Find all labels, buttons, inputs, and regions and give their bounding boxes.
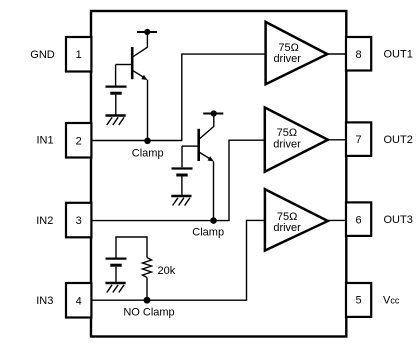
wire Q2 collector [200, 114, 214, 139]
pin 3 box [66, 203, 91, 238]
svg-text:OUT3: OUT3 [384, 214, 413, 226]
pin 5 box [346, 283, 371, 317]
capacitor C2 [172, 169, 193, 176]
pin 6 box [346, 202, 371, 236]
transistor Q1 [132, 47, 147, 80]
svg-text:Clamp: Clamp [192, 226, 224, 238]
wire C3 to ground [115, 267, 117, 282]
svg-text:4: 4 [76, 296, 82, 308]
pin 1 box [66, 37, 91, 72]
svg-text:3: 3 [76, 215, 82, 227]
ground GND3 [106, 283, 126, 293]
wire R1 to IN3 [146, 278, 148, 301]
wire IN3 (pin4 to corner) [91, 299, 247, 301]
pin 2 box [66, 123, 91, 158]
svg-text:6: 6 [356, 214, 362, 226]
node no-clamp junction [144, 297, 151, 304]
ground GND1 [106, 116, 126, 126]
svg-text:Clamp: Clamp [132, 147, 164, 159]
wire C3 R1 top link [116, 237, 147, 258]
node clamp 1 junction [144, 138, 151, 145]
IC body U1 [91, 11, 346, 337]
driver U2 (75 ohm driver 1) [266, 22, 328, 84]
wire IN2 (pin3 to corner) [91, 220, 230, 222]
svg-text:driver: driver [273, 138, 301, 150]
wire Q2 base [182, 145, 198, 147]
wire IN1 (pin2 to corner) [91, 140, 182, 142]
svg-text:IN1: IN1 [36, 135, 53, 147]
transistor Q2 collector rail [203, 113, 223, 115]
wire U2 output to pin 8 [327, 53, 346, 55]
svg-text:NO Clamp: NO Clamp [123, 306, 174, 318]
pin 8 box [346, 37, 371, 71]
svg-text:IN3: IN3 [36, 295, 53, 307]
node Q1 collector dot [144, 29, 150, 35]
wire Q2 emitter to IN2 [213, 162, 215, 221]
wire IN1 riser to driver U2 [182, 54, 266, 140]
wire Q1 collector [133, 32, 147, 57]
wire IN3 riser to driver U4 [247, 220, 267, 300]
capacitor C1 [106, 87, 127, 94]
svg-text:8: 8 [356, 49, 362, 61]
svg-text:Vcc: Vcc [383, 294, 400, 306]
svg-text:75Ω: 75Ω [277, 127, 297, 139]
pin 4 box [66, 283, 91, 318]
wire Q1 emitter to IN1 [147, 80, 149, 141]
capacitor C3 [106, 259, 127, 266]
wire Q2 base to capacitor C2 [181, 146, 183, 167]
wire U4 output to pin 6 [328, 219, 346, 221]
svg-text:20k: 20k [158, 265, 176, 277]
svg-text:OUT1: OUT1 [384, 49, 413, 61]
pin 7 box [346, 122, 371, 155]
wire IN2 riser to driver U3 [229, 140, 266, 220]
node Q2 collector dot [211, 110, 217, 116]
wire Q1 base [116, 64, 131, 66]
transistor Q2 [199, 129, 214, 162]
node clamp 2 junction [210, 217, 217, 224]
svg-text:OUT2: OUT2 [384, 134, 413, 146]
svg-text:5: 5 [356, 295, 362, 307]
svg-text:7: 7 [356, 134, 362, 146]
svg-text:driver: driver [273, 222, 301, 234]
driver U4 (75 ohm driver 3) [265, 189, 328, 250]
ground GND2 [171, 196, 191, 206]
driver U3 (75 ohm driver 2) [265, 108, 328, 172]
wire C1 to ground [115, 95, 117, 115]
svg-text:GND: GND [30, 49, 55, 61]
wire U3 output to pin 7 [328, 139, 346, 141]
transistor Q1 collector rail [137, 31, 157, 33]
wire Q1 base to capacitor C1 [115, 65, 117, 86]
svg-text:IN2: IN2 [36, 215, 53, 227]
svg-text:driver: driver [273, 53, 301, 65]
svg-text:1: 1 [76, 49, 82, 61]
resistor R1 20k [143, 258, 152, 278]
wire C2 to ground [181, 177, 183, 195]
svg-text:2: 2 [76, 136, 82, 148]
